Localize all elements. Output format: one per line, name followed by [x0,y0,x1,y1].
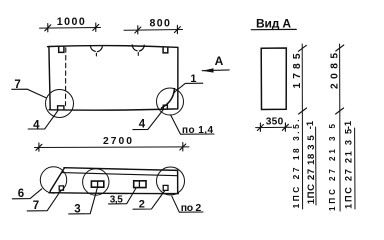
svg-text:А: А [215,54,224,68]
detail circle side left end [40,167,66,193]
svg-text:350: 350 [266,117,284,128]
svg-text:Вид А: Вид А [256,17,291,31]
hidden lifting loop arc 2 (dashed) [132,45,144,51]
end view rectangle (Вид А) [261,48,286,110]
embedded plate 1 in side view (item 3) [91,181,103,187]
svg-text:1ПС 27 18 3.5.: 1ПС 27 18 3.5. [291,119,301,208]
svg-text:800: 800 [149,18,170,30]
loop seat square top-right [163,48,168,53]
hidden loop 1 center dash [95,53,97,56]
svg-text:7: 7 [33,200,39,212]
tick marks line 1 [298,45,306,114]
detail circle bottom-right corner [157,88,184,115]
dimension 1000: line with ticks [40,27,101,30]
svg-text:1785: 1785 [292,53,303,88]
svg-text:2085: 2085 [330,53,341,89]
plate 2 anchor tick [138,182,140,187]
dimension 350: line with ticks [256,126,292,128]
embedded plate square bottom-right (item 4) [163,105,167,109]
small square item 2 in side view right end [163,185,168,190]
underline of mark column B group 2 [354,128,356,209]
svg-text:1000: 1000 [57,16,85,28]
loop seat square top-left (item on top edge) [59,46,64,52]
dimension 2700: line with ticks [35,146,190,149]
detail circle bottom-left corner [46,90,74,118]
underline of mark column B group 1 [315,127,317,205]
svg-text:1ПС 27 21 3 5: 1ПС 27 21 3 5 [328,123,337,211]
detail circle side middle [83,169,109,195]
arrow line [202,69,229,72]
hidden lifting loop arc 1 (dashed) [90,46,102,52]
vertical dimension line 2 (2085) [339,44,342,211]
svg-text:4: 4 [139,119,146,131]
bent lifting loop (item 1) in bottom-right corner [162,89,175,108]
svg-text:2700: 2700 [103,136,132,147]
vertical dimension line 1 (1785) continuing as underline of first mark [301,44,303,209]
hidden loop 2 center dash [137,53,139,56]
dashed axis line left [65,48,67,106]
detail circle side right end [157,167,185,195]
tick marks line 2 [336,45,344,114]
svg-text:-1: -1 [305,120,316,129]
embedded plate square bottom-left (item 4) [58,106,64,110]
svg-text:1ПС 27 18 3 5: 1ПС 27 18 3 5 [306,135,317,205]
svg-text:1ПС 27 21 3 5: 1ПС 27 21 3 5 [344,129,354,209]
side view chamfer edge line [62,173,177,176]
embedded plate 2 in side view (item 3,5) [134,181,146,188]
plate 1 anchor tick [97,182,99,186]
dimension 800: line with ticks [124,29,183,32]
plan view outline (lintel top view rectangle) [48,46,178,111]
arrow head [202,68,213,72]
small square item 7 in side view [59,186,63,190]
side view outline (elevation of lintel) [49,168,178,194]
svg-text:-1: -1 [343,120,354,129]
svg-text:4: 4 [33,119,40,131]
